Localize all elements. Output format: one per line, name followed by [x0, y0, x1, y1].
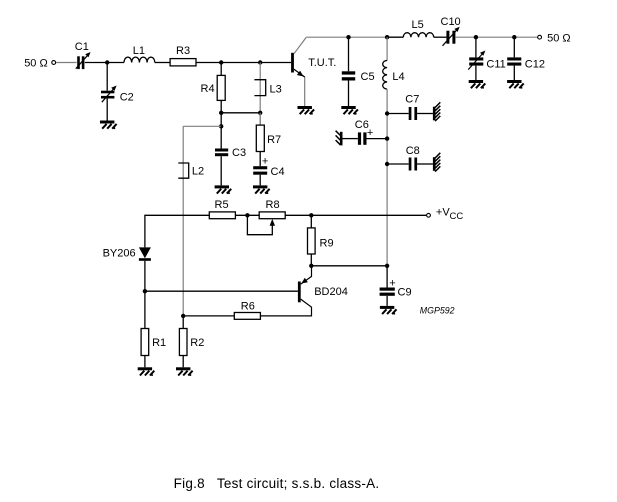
capacitor C6 (electrolytic): [343, 119, 388, 145]
svg-text:MGP592: MGP592: [420, 305, 455, 315]
svg-text:C12: C12: [525, 58, 545, 70]
wire tie R4-L3 columns: [221, 112, 260, 114]
wire top rail: [306, 36, 387, 38]
svg-text:BD204: BD204: [314, 286, 348, 298]
node emitter row left: [309, 264, 313, 268]
inductor L2: [178, 126, 204, 316]
wire L1 to R3: [155, 62, 170, 64]
capacitor C9 (electrolytic): [380, 266, 412, 306]
capacitor C1 (variable): [75, 41, 91, 69]
ground below C4: [253, 185, 270, 194]
chassis left of C6: [336, 131, 343, 146]
wire C2 to ground: [106, 99, 108, 121]
svg-text:C3: C3: [232, 147, 246, 159]
svg-text:R3: R3: [176, 45, 190, 57]
wire R3 to T.U.T. base: [196, 62, 291, 64]
svg-text:R6: R6: [241, 301, 255, 313]
resistor R5: [209, 199, 235, 219]
wire emitter row: [311, 265, 387, 267]
svg-text:L5: L5: [412, 19, 424, 31]
svg-text:C8: C8: [406, 145, 420, 157]
node R4 top: [219, 60, 223, 64]
svg-text:L2: L2: [192, 166, 204, 178]
output terminal 50 ohm: [538, 32, 571, 44]
input terminal 50 ohm: [24, 58, 55, 70]
resistor R2: [179, 316, 204, 367]
svg-text:C5: C5: [361, 71, 375, 83]
ground below C2: [100, 121, 117, 130]
svg-text:R5: R5: [215, 199, 229, 211]
transistor BD204 (PNP): [260, 266, 347, 316]
svg-text:C11: C11: [486, 58, 505, 70]
svg-text:+: +: [367, 127, 373, 139]
wire VCC row left: [145, 215, 209, 247]
terminal +VCC: [427, 207, 464, 222]
ground below C3: [215, 185, 232, 194]
svg-text:50 Ω: 50 Ω: [24, 58, 48, 70]
node emitter row right: [385, 264, 389, 268]
resistor R6: [183, 301, 260, 320]
diode BY206: [103, 247, 151, 291]
svg-text:T.U.T.: T.U.T.: [308, 57, 336, 69]
wire C1 to L1: [85, 62, 124, 64]
wire L5 to C10: [434, 36, 447, 38]
node C8 junction: [385, 162, 389, 166]
wire input to C1: [56, 62, 77, 64]
node tie left: [219, 111, 223, 115]
node L3 top: [258, 60, 262, 64]
svg-text:+V: +V: [436, 207, 450, 219]
svg-text:L3: L3: [270, 83, 282, 95]
resistor R9: [308, 215, 334, 265]
wire L2 tie: [183, 125, 221, 127]
svg-text:C9: C9: [398, 287, 412, 299]
wire junction down to C2: [106, 63, 108, 91]
capacitor C7: [387, 94, 433, 121]
svg-text:CC: CC: [450, 211, 464, 222]
svg-text:L1: L1: [133, 45, 145, 57]
node C11 top: [474, 35, 478, 39]
svg-text:C2: C2: [120, 91, 134, 103]
ground below C9: [380, 306, 397, 315]
svg-text:R8: R8: [266, 199, 280, 211]
svg-text:+: +: [262, 156, 268, 168]
svg-text:C10: C10: [441, 16, 461, 28]
resistor R3: [170, 45, 196, 66]
node input junction: [105, 60, 109, 64]
node L4 top: [385, 35, 389, 39]
transistor T.U.T. (NPN): [291, 37, 336, 106]
node C6 junction: [385, 136, 389, 140]
ground below C12: [507, 80, 524, 89]
capacitor C10 (variable): [441, 16, 461, 46]
wire R5 to R8: [235, 214, 259, 216]
wire R8 to VCC terminal: [285, 214, 426, 216]
node R5-R8 junction: [245, 213, 249, 217]
node C7 junction: [385, 111, 389, 115]
node R4 bottom / L2 tie: [219, 124, 223, 128]
svg-text:C7: C7: [405, 94, 419, 106]
ground below R1: [138, 367, 155, 376]
svg-text:Fig.8 Test circuit; s.s.b. c: Fig.8 Test circuit; s.s.b. class-A.: [174, 476, 380, 491]
svg-text:L4: L4: [392, 71, 404, 83]
svg-text:R1: R1: [152, 337, 166, 349]
svg-text:C4: C4: [271, 166, 285, 178]
node diode bottom: [143, 289, 147, 293]
chassis right of C7: [433, 102, 440, 121]
resistor R1: [141, 291, 166, 367]
svg-text:C1: C1: [75, 41, 89, 53]
resistor R7: [256, 113, 281, 166]
capacitor C4 (electrolytic): [253, 156, 284, 186]
wire C10 to output: [456, 36, 538, 38]
capacitor C5: [342, 37, 375, 106]
node tie right: [258, 111, 262, 115]
node C12 top: [512, 35, 516, 39]
svg-text:50 Ω: 50 Ω: [547, 32, 571, 44]
node R6 left / R2 top: [181, 314, 185, 318]
svg-text:R9: R9: [320, 237, 334, 249]
resistor R4: [201, 63, 226, 127]
inductor L3: [254, 63, 281, 126]
svg-text:BY206: BY206: [103, 248, 136, 260]
capacitor C11 (variable): [468, 37, 506, 80]
capacitor C8: [387, 145, 433, 171]
inductor L1: [124, 45, 155, 63]
ground below T.U.T. emitter: [298, 106, 315, 115]
resistor R8 (potentiometer): [247, 199, 285, 235]
ground below R2: [176, 367, 193, 376]
capacitor C12: [507, 37, 545, 80]
inductor L4: [383, 37, 405, 266]
ground below C11: [469, 80, 486, 89]
node R9 top: [309, 213, 313, 217]
wire base row: [145, 290, 298, 292]
svg-text:R7: R7: [267, 134, 281, 146]
svg-text:R2: R2: [190, 337, 204, 349]
capacitor C3: [215, 126, 246, 185]
node C5 top: [346, 35, 350, 39]
capacitor C2 (variable): [101, 86, 134, 104]
ground below C5: [341, 106, 358, 115]
inductor L5: [403, 19, 433, 37]
chassis right of C8: [433, 153, 440, 172]
svg-text:R4: R4: [201, 83, 215, 95]
